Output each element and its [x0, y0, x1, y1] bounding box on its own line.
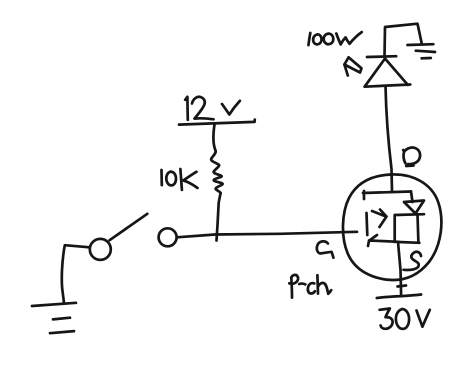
substrate arrow — [372, 210, 387, 228]
source wire down — [398, 242, 401, 294]
wire 12V to resistor — [213, 125, 215, 151]
LED D1 triangle — [365, 59, 411, 87]
wire resistor to node — [217, 193, 221, 241]
source to diode connector — [399, 241, 420, 245]
ground bottom left line 3 — [50, 331, 74, 333]
wire drain — [386, 86, 393, 191]
ground bottom left line 1 — [32, 303, 76, 306]
label P-ch — [289, 275, 331, 298]
30V rail — [377, 295, 421, 299]
12V rail underline — [179, 120, 255, 125]
body diode bar + channel top link — [395, 213, 424, 217]
MOSFET Q1 body circle — [343, 174, 441, 280]
channel vertical bar — [393, 215, 396, 242]
ground bottom left line 2 — [53, 318, 70, 320]
switch pole circle — [90, 239, 111, 260]
light squiggle arrow — [344, 57, 361, 72]
terminal circle — [159, 228, 177, 246]
ground top right line 2 — [416, 51, 435, 52]
wire node to gate — [177, 232, 357, 238]
label 100W — [309, 32, 362, 45]
wire diode top to ground — [385, 24, 422, 57]
gate vertical bar — [365, 213, 368, 235]
label G — [317, 241, 334, 257]
switch lever — [110, 214, 148, 240]
wire bar to body diode — [411, 192, 413, 203]
body diode triangle — [404, 201, 424, 214]
wire pole to ground — [62, 245, 90, 303]
source bottom bar — [368, 235, 399, 246]
resistor R1 10k zigzag — [211, 151, 223, 194]
MOSFET top bar (drain electrode) — [363, 191, 411, 199]
body diode vertical — [416, 215, 420, 243]
label 10k — [162, 169, 198, 190]
ground top right line 3 — [422, 57, 431, 60]
tick on source wire — [398, 286, 407, 287]
label D — [403, 148, 420, 166]
label 30V — [380, 309, 430, 329]
label 12V — [185, 97, 240, 120]
LED D1 cathode bar — [367, 55, 396, 58]
label S — [404, 252, 422, 270]
ground top right line 1 — [408, 43, 434, 46]
